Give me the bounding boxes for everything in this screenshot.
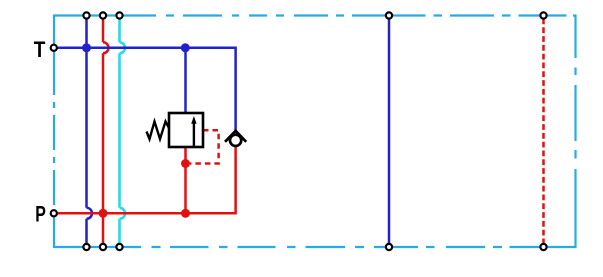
relief valve V1: body square: [169, 113, 203, 147]
wire hop: cyan over red P line: [120, 208, 126, 219]
wire: cyan vertical line (x=119.5) with hops over T and P lines: [118, 19, 121, 244]
wire hop: red over blue T line: [103, 42, 109, 53]
junction dot: red at P line x=185.5: [181, 209, 190, 218]
port node: bottom border x=86.5: [83, 244, 89, 250]
port node: P terminal circle: [51, 210, 57, 216]
port node: top border x=389: [386, 12, 392, 18]
enclosure boundary left side: [53, 15, 55, 249]
relief valve V1: flow arrow: [193, 123, 195, 148]
wire: blue T line from port T to check valve: [54, 48, 236, 131]
wire: red line from relief valve bottom down to P line: [184, 147, 187, 213]
port node: bottom border x=389: [386, 244, 392, 250]
port node: top border x=119.5: [116, 12, 122, 18]
check valve CV1: ball circle: [230, 135, 241, 146]
port node: top border x=543.5: [540, 12, 546, 18]
port node: T terminal circle: [51, 45, 57, 51]
junction dot: blue at T line x=86.5: [82, 43, 91, 52]
junction dot: red at P line x=103: [99, 209, 108, 218]
junction dot: red pilot junction x=185.5 y=163.5: [181, 159, 190, 168]
wire: red vertical line (x=103) with hop over blue T line: [102, 19, 105, 244]
enclosure boundary bottom side: [54, 246, 576, 248]
wire hop: cyan over blue T line: [120, 42, 126, 53]
wire: blue vertical line (x=86.5) top to bottom with hop over red P line: [85, 19, 88, 244]
wire: red dashed pilot line from relief valve right side: [190, 130, 219, 163]
port node: bottom border x=119.5: [116, 244, 122, 250]
svg-text:T: T: [34, 37, 46, 62]
enclosure boundary (dash-dot frame) top side: [54, 14, 576, 16]
check valve CV1: seat (inverted V): [225, 131, 246, 142]
wire: blue vertical line (x=389): [388, 19, 391, 244]
svg-text:P: P: [35, 201, 46, 226]
port node: top border x=103: [100, 12, 106, 18]
wire: red dashed vertical line (x=543.5): [542, 19, 545, 244]
wire: red P line from port P to check valve bottom: [54, 146, 236, 214]
junction dot: blue at T line x=185.3: [181, 43, 190, 52]
enclosure boundary right side: [574, 15, 576, 249]
port node: top border x=86.5: [83, 12, 89, 18]
port node: bottom border x=103: [100, 244, 106, 250]
wire: blue branch down to relief valve: [184, 48, 187, 114]
wire hop: blue over red P line: [87, 208, 93, 219]
port node: bottom border x=543.5: [540, 244, 546, 250]
relief valve V1: spring: [147, 122, 170, 140]
